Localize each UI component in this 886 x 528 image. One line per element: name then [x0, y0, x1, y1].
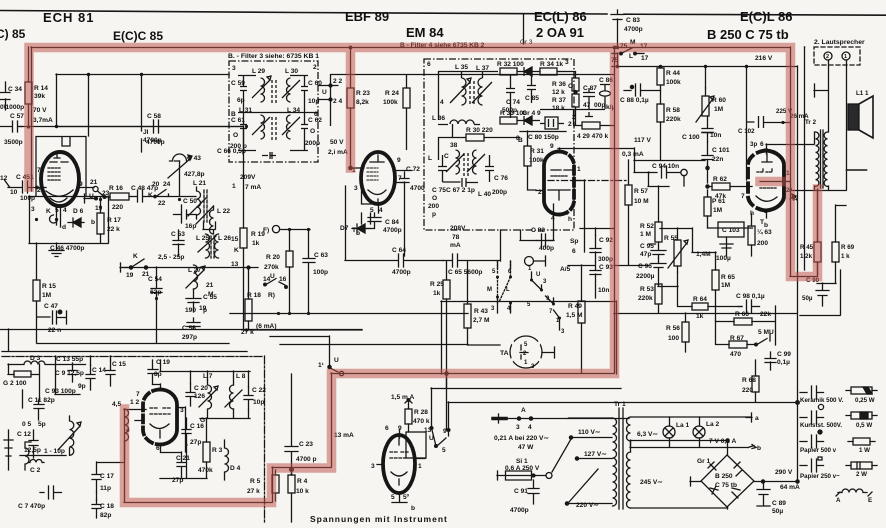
coil L31 — [252, 115, 270, 139]
svg-text:27p: 27p — [190, 439, 201, 446]
wire R3 — [160, 418, 207, 479]
svg-text:U: U — [89, 193, 94, 200]
capacitor C74 — [506, 75, 515, 118]
capacitor C12 — [29, 430, 38, 458]
legend row3 resistor — [848, 441, 875, 443]
svg-text:13: 13 — [424, 427, 432, 434]
svg-text:O: O — [233, 132, 238, 139]
junction dots power — [796, 401, 800, 405]
wire L35 top — [438, 71, 498, 120]
switch ladder left — [498, 261, 511, 313]
filter4 dash-dot box — [424, 59, 574, 230]
wire R52 — [648, 186, 669, 250]
svg-text:R 34 1k: R 34 1k — [540, 61, 563, 68]
svg-text:mA: mA — [450, 242, 461, 249]
svg-text:2: 2 — [37, 187, 41, 194]
capacitor C75 — [438, 155, 447, 182]
svg-text:C 61: C 61 — [231, 117, 245, 124]
svg-text:1 2: 1 2 — [130, 399, 139, 406]
jack symbol — [525, 257, 534, 266]
svg-text:6p: 6p — [237, 97, 245, 104]
svg-text:C 46 4700p: C 46 4700p — [50, 245, 84, 252]
grid dash line EM84 — [548, 180, 628, 182]
svg-text:C 17: C 17 — [100, 473, 114, 480]
wire y388 — [431, 373, 621, 428]
resistor R49 — [578, 301, 585, 323]
coil L27 — [186, 265, 205, 289]
svg-text:Tr 1: Tr 1 — [614, 401, 626, 408]
svg-text:L 22: L 22 — [217, 208, 230, 215]
resistor R58 — [657, 104, 664, 122]
resistor R24 — [403, 88, 410, 108]
capacitor C54 — [151, 289, 162, 344]
svg-text:12,5p: 12,5p — [24, 447, 41, 454]
svg-text:EM 84: EM 84 — [406, 25, 444, 40]
wire R65 — [692, 252, 716, 306]
svg-text:R 55: R 55 — [664, 235, 678, 242]
svg-text:1,5 m A: 1,5 m A — [391, 394, 414, 401]
capacitor C91 — [528, 480, 539, 504]
capacitor C72 — [400, 172, 409, 256]
svg-text:EC(L) 86: EC(L) 86 — [534, 9, 587, 24]
svg-text:C 94 10n: C 94 10n — [652, 163, 679, 170]
svg-text:C 34: C 34 — [8, 86, 22, 93]
svg-text:22n: 22n — [712, 156, 723, 163]
svg-text:62p: 62p — [150, 289, 161, 296]
capacitor C66 — [262, 152, 276, 159]
svg-text:U: U — [429, 435, 434, 442]
svg-text:297p: 297p — [182, 334, 197, 341]
svg-text:L 31: L 31 — [239, 107, 252, 114]
svg-text:a: a — [755, 415, 759, 422]
svg-text:10p: 10p — [253, 399, 264, 406]
svg-text:1 - 10p: 1 - 10p — [44, 448, 65, 455]
svg-text:7 V 0,3 A: 7 V 0,3 A — [709, 438, 736, 445]
svg-text:C 16: C 16 — [190, 423, 204, 430]
svg-text:3p: 3p — [750, 141, 757, 148]
capacitor C84 — [361, 213, 382, 229]
capacitor C19 — [148, 360, 158, 384]
capacitor C34 — [0, 82, 10, 110]
svg-text:C 7 470p: C 7 470p — [18, 503, 45, 510]
svg-text:100p: 100p — [20, 195, 35, 202]
svg-text:h: h — [568, 216, 572, 223]
svg-text:47: 47 — [583, 102, 591, 109]
legend row2 resistor — [846, 415, 877, 417]
wire V2 pins — [124, 384, 186, 452]
svg-text:8: 8 — [516, 135, 520, 142]
svg-text:64 mA: 64 mA — [780, 484, 800, 491]
svg-text:C 84: C 84 — [385, 219, 399, 226]
coil L38 — [446, 150, 464, 174]
svg-text:La 1: La 1 — [676, 422, 690, 429]
svg-text:38: 38 — [450, 142, 458, 149]
potentiometer R60 — [702, 96, 709, 116]
legend row4 resistor — [846, 465, 877, 467]
resistor R56 — [682, 322, 689, 342]
svg-text:6: 6 — [314, 111, 318, 118]
svg-text:R 18: R 18 — [247, 292, 261, 299]
tube V4 EM84 — [544, 152, 559, 215]
resistor R57 — [625, 185, 632, 205]
wire D7 — [362, 213, 371, 224]
svg-text:16: 16 — [279, 276, 287, 283]
svg-text:4700p: 4700p — [392, 269, 411, 276]
capacitor C85 — [527, 75, 536, 103]
svg-text:4: 4 — [63, 207, 67, 214]
svg-text:C 74: C 74 — [506, 99, 520, 106]
capacitor C23 — [285, 374, 298, 475]
svg-text:C 22: C 22 — [252, 387, 266, 394]
capacitor C90 — [816, 283, 829, 306]
svg-text:0,5 W: 0,5 W — [856, 422, 872, 429]
capacitor C50 — [174, 205, 197, 223]
svg-text:R 60: R 60 — [712, 97, 726, 104]
svg-text:1¹: 1¹ — [318, 362, 324, 369]
resistor R69 — [832, 242, 839, 262]
svg-text:C 60: C 60 — [308, 80, 322, 87]
svg-text:3: 3 — [565, 59, 569, 66]
capacitor C103 — [718, 222, 744, 237]
svg-text:290 V: 290 V — [775, 469, 793, 476]
capacitor C93 — [580, 228, 614, 298]
svg-text:200 p: 200 p — [230, 143, 247, 150]
svg-text:C 95: C 95 — [640, 243, 654, 250]
lamp La2 — [693, 426, 705, 438]
svg-text:R 24: R 24 — [385, 90, 399, 97]
svg-text:0 5: 0 5 — [22, 421, 31, 428]
svg-text:Tr 2: Tr 2 — [805, 119, 817, 126]
svg-text:EBF 89: EBF 89 — [345, 9, 389, 24]
capacitor C82 — [520, 230, 553, 247]
coil L21 — [197, 187, 201, 219]
wire tube pins — [42, 188, 94, 215]
switch 75 L 17 row — [612, 48, 644, 54]
transformer Tr1 core — [619, 408, 623, 509]
coil L34 — [282, 115, 300, 139]
svg-text:4700p: 4700p — [383, 227, 402, 234]
svg-text:Keramik 500 V.: Keramik 500 V. — [800, 397, 844, 404]
svg-text:245 V∼: 245 V∼ — [640, 479, 663, 486]
speaker L11 — [848, 104, 859, 130]
capacitor C80 — [545, 117, 558, 129]
svg-text:R 64: R 64 — [693, 296, 707, 303]
svg-text:C 13 55p: C 13 55p — [56, 356, 83, 363]
switch U bottom right — [432, 428, 449, 446]
resistor R20 — [286, 251, 293, 267]
core L21/L22 — [204, 190, 207, 222]
wire Tr1 primary taps — [566, 418, 613, 504]
bridge B250 — [701, 455, 754, 507]
capacitor C20 — [186, 384, 195, 406]
svg-text:200p: 200p — [305, 140, 320, 147]
potentiometer R55 — [674, 240, 681, 266]
wire R43 — [468, 261, 501, 345]
svg-text:0,25 W: 0,25 W — [855, 397, 875, 404]
svg-text:2200µ: 2200µ — [636, 273, 655, 280]
svg-text:4700p: 4700p — [624, 26, 643, 33]
ground C46 — [56, 219, 58, 225]
svg-text:21: 21 — [206, 282, 214, 289]
Tr1 sec 6.3V — [627, 417, 631, 441]
switch MU — [757, 334, 770, 345]
svg-text:Gr 4 9: Gr 4 9 — [522, 110, 541, 117]
coil L22 — [210, 206, 214, 234]
capacitor C86 — [600, 91, 611, 96]
svg-text:R 67: R 67 — [730, 335, 744, 342]
resistor R33 + diode — [500, 117, 517, 124]
wire R49 — [568, 265, 595, 373]
wire x584 — [574, 180, 585, 252]
svg-text:4700p: 4700p — [143, 137, 162, 144]
svg-text:C 14: C 14 — [92, 367, 106, 374]
svg-text:2: 2 — [568, 121, 572, 128]
svg-text:50 V: 50 V — [330, 139, 344, 146]
svg-text:1: 1 — [844, 54, 847, 60]
svg-text:8,2k: 8,2k — [356, 99, 369, 106]
svg-text:(6 mA): (6 mA) — [256, 323, 277, 330]
wire V5 pins — [748, 144, 814, 218]
junction dots mid-left — [155, 125, 310, 332]
capacitor C58 — [56, 120, 243, 133]
wire G2 — [8, 364, 40, 408]
svg-text:1 M: 1 M — [640, 231, 651, 238]
wire R68 — [448, 360, 797, 403]
svg-text:L 26: L 26 — [218, 235, 231, 242]
switch U corner — [270, 336, 338, 372]
variable capacitor C43 — [168, 154, 191, 178]
svg-text:9: 9 — [443, 428, 447, 435]
svg-text:C 9 12,5p: C 9 12,5p — [55, 370, 84, 377]
svg-text:L 34: L 34 — [287, 107, 300, 114]
svg-text:R 32 100: R 32 100 — [497, 61, 524, 68]
svg-text:3,7mA: 3,7mA — [33, 117, 53, 124]
box switch section — [441, 301, 617, 374]
label C79 wire — [500, 230, 502, 261]
svg-text:100k: 100k — [383, 99, 398, 106]
svg-text:L 35: L 35 — [455, 64, 468, 71]
svg-text:2 4: 2 4 — [333, 98, 342, 105]
potentiometer P61 — [704, 197, 711, 216]
resistor R62 — [712, 183, 730, 190]
svg-text:4 29 470 k: 4 29 470 k — [577, 133, 608, 140]
resistor R14 — [25, 82, 32, 104]
red highlight path — [29, 48, 818, 503]
svg-text:C 75: C 75 — [432, 187, 446, 194]
svg-text:R): R) — [268, 292, 275, 299]
svg-text:6: 6 — [427, 61, 431, 68]
svg-text:220: 220 — [742, 387, 753, 394]
resistor R29 — [582, 122, 600, 129]
svg-text:K: K — [234, 247, 239, 254]
svg-text:12: 12 — [0, 175, 8, 182]
resistor R4 — [288, 475, 295, 493]
svg-text:E(C)C 85: E(C)C 85 — [113, 29, 163, 43]
wire bridge — [631, 440, 798, 509]
svg-text:C 72: C 72 — [406, 166, 420, 173]
svg-text:100p: 100p — [313, 269, 328, 276]
svg-text:Papier 500 v: Papier 500 v — [800, 447, 837, 454]
svg-text:C 63: C 63 — [314, 252, 328, 259]
svg-text:2: 2 — [572, 114, 576, 121]
svg-text:Sp: Sp — [570, 238, 578, 245]
svg-text:C 11 82p: C 11 82p — [28, 397, 55, 404]
transformer Tr2 — [816, 132, 819, 186]
wire Tr2 top — [790, 132, 846, 191]
svg-text:C 82: C 82 — [531, 227, 545, 234]
svg-text:5: 5 — [442, 447, 446, 454]
switch K left — [156, 190, 169, 197]
svg-text:1: 1 — [232, 183, 236, 190]
lamp La1 — [663, 426, 675, 438]
coil L5 red path — [125, 409, 129, 460]
svg-text:P 61: P 61 — [712, 198, 726, 205]
box lower triode — [29, 196, 109, 244]
svg-text:¼ 63: ¼ 63 — [757, 228, 772, 236]
resistor R30 — [466, 134, 484, 141]
wire filter right 22 24 — [318, 74, 339, 126]
wire R36 — [566, 71, 576, 125]
svg-text:10n: 10n — [598, 287, 609, 294]
wire mid row — [238, 112, 318, 114]
diode Gr — [517, 67, 540, 76]
coil L37 — [472, 78, 492, 105]
svg-text:15: 15 — [231, 236, 239, 243]
svg-text:R 31: R 31 — [530, 148, 544, 155]
svg-text:C 62: C 62 — [308, 117, 322, 124]
svg-text:17: 17 — [641, 55, 649, 62]
svg-text:U: U — [334, 357, 339, 364]
capacitor C100 — [702, 116, 713, 142]
tube V2 internals — [150, 408, 172, 414]
svg-text:0,6 A 250 V: 0,6 A 250 V — [505, 465, 540, 472]
svg-text:C 58: C 58 — [147, 113, 161, 120]
svg-text:R 65: R 65 — [721, 274, 735, 281]
svg-text:R 66: R 66 — [735, 311, 749, 318]
svg-text:C 53: C 53 — [171, 231, 185, 238]
svg-text:R 49: R 49 — [568, 303, 582, 310]
svg-text:6: 6 — [760, 141, 764, 148]
svg-text:F): F) — [263, 227, 269, 234]
wire y261 — [123, 267, 258, 288]
wire top bus black under red — [31, 47, 791, 373]
svg-text:3: 3 — [354, 185, 358, 192]
svg-text:1,4M: 1,4M — [696, 251, 711, 258]
resistor R63 — [748, 226, 755, 245]
svg-text:C 88 0,1µ: C 88 0,1µ — [620, 97, 649, 104]
svg-text:10n: 10n — [710, 132, 721, 139]
coil D3 — [8, 361, 55, 365]
wire x243 — [244, 126, 363, 330]
svg-text:2: 2 — [826, 54, 829, 60]
svg-text:b: b — [411, 505, 415, 512]
svg-text:5: 5 — [391, 494, 395, 501]
svg-text:220 V∼: 220 V∼ — [576, 502, 599, 509]
svg-text:C 20: C 20 — [194, 385, 208, 392]
terminal U 19 — [84, 194, 94, 203]
svg-text:b: b — [757, 445, 761, 452]
svg-text:7: 7 — [398, 175, 402, 182]
svg-text:1M: 1M — [42, 292, 52, 299]
filter3 dash-dot box — [229, 61, 318, 162]
capacitor C57 — [0, 121, 22, 132]
svg-text:427,8p: 427,8p — [184, 171, 205, 178]
svg-text:4700: 4700 — [410, 185, 425, 192]
capacitor C62 — [290, 112, 308, 151]
capacitor C94 — [648, 166, 681, 186]
measure point 1,5mA — [405, 400, 412, 410]
svg-text:1 W: 1 W — [859, 447, 870, 454]
svg-text:10p: 10p — [308, 98, 319, 105]
svg-text:4: 4 — [379, 207, 383, 214]
svg-text:22 k: 22 k — [107, 226, 120, 233]
svg-text:16p: 16p — [185, 223, 196, 230]
svg-text:C 56: C 56 — [182, 325, 196, 332]
svg-text:9: 9 — [397, 157, 401, 164]
svg-text:h: h — [750, 210, 754, 217]
svg-text:C 103: C 103 — [722, 227, 740, 234]
diode D6 — [68, 218, 84, 227]
svg-text:2 OA 91: 2 OA 91 — [536, 25, 584, 40]
svg-text:3: 3 — [232, 65, 236, 72]
capacitor C14 — [86, 365, 95, 390]
svg-text:4700p: 4700p — [510, 507, 529, 514]
resistor R66 — [734, 318, 752, 325]
svg-text:D 3: D 3 — [30, 355, 41, 362]
svg-text:C 2: C 2 — [30, 467, 41, 474]
capacitor C98 — [738, 300, 760, 313]
svg-text:R 62: R 62 — [713, 176, 727, 183]
svg-text:470k: 470k — [198, 467, 213, 474]
terminal bar — [814, 84, 828, 97]
capacitor C55 — [186, 289, 201, 312]
capacitor C59 — [238, 75, 256, 112]
resistor R45 — [814, 242, 821, 262]
wire R62 — [708, 165, 749, 187]
wire F terminal — [272, 226, 310, 233]
svg-text:U: U — [270, 273, 275, 280]
svg-text:L: L — [506, 287, 510, 293]
svg-text:C 15: C 15 — [112, 361, 126, 368]
svg-text:B: B — [231, 111, 236, 118]
capacitor C11 — [34, 400, 44, 420]
wire 6.3V lamps — [630, 413, 756, 449]
svg-text:C 93 100p: C 93 100p — [45, 388, 76, 395]
switch ladder right — [532, 272, 560, 330]
svg-text:R 23: R 23 — [356, 90, 370, 97]
svg-text:C 67 2 1p: C 67 2 1p — [446, 187, 475, 194]
wire anode feed — [20, 47, 243, 152]
svg-text:R 20: R 20 — [266, 254, 280, 261]
coil L7 — [199, 380, 218, 418]
junction dots left — [27, 125, 181, 221]
svg-text:190: 190 — [185, 307, 196, 314]
capacitor C22 — [244, 387, 253, 410]
svg-text:L 40: L 40 — [478, 191, 491, 198]
tube V3 internals — [367, 168, 378, 180]
resistor R25 — [443, 280, 450, 299]
svg-text:C 55: C 55 — [203, 294, 217, 301]
svg-text:3500p: 3500p — [4, 139, 23, 146]
TUBE LABELS — [0, 9, 793, 43]
svg-text:6: 6 — [156, 445, 160, 452]
svg-text:2 2: 2 2 — [333, 78, 342, 85]
svg-text:L 7: L 7 — [203, 373, 213, 380]
tube V4 internals — [548, 170, 572, 200]
svg-text:B 250: B 250 — [715, 473, 733, 480]
svg-text:B. - Filter 3 siehe: 6735 KB 1: B. - Filter 3 siehe: 6735 KB 1 — [228, 53, 319, 60]
svg-text:10 M: 10 M — [634, 198, 649, 205]
